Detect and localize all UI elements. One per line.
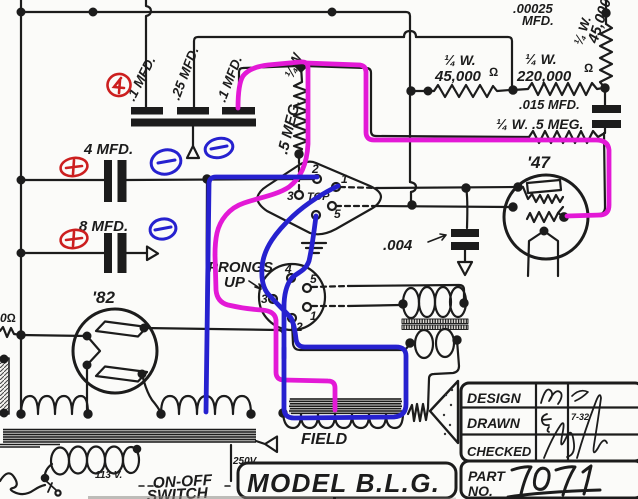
table row line 2 — [461, 433, 638, 435]
magenta trace from .5MEG top to 47 grid — [306, 63, 609, 216]
svg-text:7-32: 7-32 — [571, 412, 589, 422]
svg-text:UP: UP — [224, 274, 246, 291]
82 anode plate top — [96, 322, 147, 337]
tube 47 plate box — [527, 180, 561, 193]
wire dashed from S2 pin1 — [312, 305, 348, 307]
wire 250V lead — [230, 445, 232, 481]
svg-text:0Ω: 0Ω — [0, 311, 16, 325]
T1 core laminations — [402, 319, 468, 324]
wire dashed from .5MEG bottom to socket pin3 — [298, 158, 300, 189]
filter choke L1 loops — [21, 396, 88, 415]
node choke2 right — [247, 410, 254, 417]
choke core bar hatched — [3, 429, 256, 443]
node 220k right / vertical resistor bottom — [601, 84, 608, 91]
terminal arrow 8MFD — [147, 247, 158, 261]
capacitor bank common bottom plate — [131, 119, 256, 127]
svg-text:113 V.: 113 V. — [95, 470, 122, 481]
wire 4MFD right — [127, 179, 315, 180]
wire cap bank ground lead — [192, 126, 194, 146]
socket S2 pin 3 — [269, 295, 277, 303]
output transformer T1 primary loops — [403, 288, 419, 318]
svg-text:'82: '82 — [92, 288, 115, 307]
wire 47 right pin to grid zigzag — [558, 213, 564, 217]
socket S2 pin 1 — [303, 303, 311, 311]
terminal arrow at core bar right — [256, 437, 277, 453]
capacitor .004 plates — [451, 229, 479, 237]
wire .004 lower lead — [464, 250, 466, 262]
wire dashed plate line from pin1 — [340, 187, 378, 188]
line cord — [0, 473, 45, 494]
red circled 4 annotation — [106, 72, 132, 98]
socket S1 pin 3 — [295, 191, 303, 199]
wire grid line to 47 grid — [372, 206, 513, 207]
tube V2 '82 envelope — [73, 309, 157, 393]
resistor R 45,000 quarter-W — [411, 85, 510, 97]
node 47 cathode top — [541, 228, 548, 235]
node left block top — [1, 356, 8, 363]
wire hop of second bus over B+ vertical — [404, 31, 416, 37]
node left block bottom — [1, 410, 8, 417]
node 47 right pin — [560, 213, 568, 221]
ground arrow under cap bank — [187, 146, 199, 158]
wire right column down to 47 grid pin — [566, 133, 605, 216]
capacitor C3 .1 MFD top plate — [222, 107, 255, 115]
wire top bus — [21, 12, 410, 182]
node T1 primary left — [399, 300, 406, 307]
svg-text:¼ W.: ¼ W. — [525, 51, 557, 67]
wire S2 pin1 to output transformer primary left — [348, 305, 400, 306]
signature design — [541, 390, 562, 405]
wire capacitor C1 lead with hop over top bus — [146, 0, 151, 107]
node T1 primary right — [460, 299, 467, 306]
blue circled minus near cap bank right — [203, 136, 234, 160]
ground arrow under .004 — [458, 262, 472, 275]
resistor .5 MEG quarter-W horizontal — [529, 131, 603, 143]
part box — [461, 461, 638, 498]
82 filament V — [87, 336, 100, 365]
blue trace socket S1 pin2 arc to S2 pin3 then pin2 then field loop — [262, 186, 406, 418]
wire .015 bottom to plate-wire corner — [604, 128, 606, 133]
wire capacitor C3 lead — [239, 66, 297, 107]
wire dashed grid line from pin5 — [336, 205, 372, 207]
svg-text:PART: PART — [468, 468, 506, 484]
svg-text:3: 3 — [287, 189, 294, 203]
node 82 plate bottom pin — [139, 371, 146, 378]
wire 4MFD left — [21, 179, 104, 181]
field coil winding hatch — [289, 398, 402, 414]
blue circled minus at 8MFD — [148, 217, 177, 241]
node 82 lower-left pin — [84, 362, 91, 369]
socket S1 pin 1 — [332, 183, 340, 191]
svg-text:4: 4 — [284, 262, 292, 276]
wire capacitor C2 lead to second bus — [194, 37, 404, 107]
node 45k left lead — [425, 88, 432, 95]
node resistor top junction — [295, 60, 306, 71]
table column line 1 — [535, 383, 537, 461]
node 47 plate pin — [514, 183, 521, 190]
node choke1 left — [17, 410, 24, 417]
wire B+ vertical lower — [411, 200, 415, 205]
signature drawn — [542, 414, 551, 432]
node field coil left — [279, 409, 286, 416]
wire T1 secondary right to voice coil — [428, 340, 459, 408]
node top bus x93 — [90, 9, 97, 16]
svg-text:CHECKED: CHECKED — [467, 444, 532, 459]
socket S1 pin 5 — [328, 202, 336, 210]
capacitor .015 MFD plates — [592, 105, 621, 113]
node 82 left pin — [84, 333, 91, 340]
wire dashed from S2 pin5 — [312, 286, 348, 287]
node primary left — [42, 475, 48, 481]
capacitor C4 4 MFD plates — [104, 160, 112, 202]
node 47 grid pin — [509, 203, 516, 210]
node 82 plate top pin — [141, 325, 148, 332]
node resistor .5MEG bottom — [295, 150, 302, 157]
node plate line at .004 — [462, 184, 469, 191]
82 anode plate bottom — [96, 367, 147, 382]
node 45k/220k junction — [509, 86, 516, 93]
svg-text:4 MFD.: 4 MFD. — [83, 141, 133, 158]
node choke1 right — [84, 410, 91, 417]
blue trace socket S1 pin4 arc to S2 pin4 and down — [284, 216, 316, 358]
svg-text:NO.: NO. — [468, 483, 493, 499]
wire 220k junction down to .015 cap — [604, 88, 606, 105]
voice coil spring — [408, 404, 428, 421]
T1 secondary loops — [415, 330, 433, 358]
wire top bus lower segment — [410, 192, 412, 200]
node grid line at B+ vertical — [408, 201, 415, 208]
resistor stub at left edge — [0, 327, 21, 337]
socket S2 pin 5 — [303, 284, 311, 292]
node rail at 82 line — [17, 331, 24, 338]
node primary right — [134, 446, 140, 452]
tube 47 filament legs — [528, 231, 558, 276]
svg-text:.004: .004 — [383, 237, 413, 254]
node 4MFD junction — [203, 175, 210, 182]
socket S2 pin 2 — [288, 314, 296, 322]
svg-text:MFD.: MFD. — [522, 13, 554, 28]
tube 47 grid zigzag upper — [523, 187, 563, 203]
blue circled minus near cap bank left — [149, 147, 184, 178]
wire 82 lower-left pin down to choke1 — [86, 365, 88, 414]
node choke2 left — [157, 410, 164, 417]
node B+ vertical at 45k — [407, 87, 414, 94]
wire right-edge vertical top — [605, 0, 607, 24]
wire 8MFD left — [21, 252, 104, 254]
wire hop of B+ vertical over plate line — [410, 182, 416, 192]
left edge resistor block hatched — [0, 358, 9, 414]
red circled plus at 8MFD — [59, 228, 88, 250]
capacitor C2 .25 MFD top plate — [177, 107, 209, 115]
svg-text:Ω: Ω — [489, 65, 498, 79]
wire primary left lead to switch — [45, 464, 52, 478]
svg-text:1: 1 — [310, 309, 317, 323]
speaker cone dots — [443, 389, 453, 435]
wire S2 pin2 down and right to secondary left (under blue) — [292, 322, 410, 350]
table column line 2 — [567, 383, 569, 461]
red circled plus at 4MFD — [59, 156, 88, 178]
dashed secondary line — [139, 485, 232, 487]
wire vertical from 4MFD junction down to choke tap — [206, 179, 207, 398]
title table outline — [461, 383, 638, 461]
wire left rail to 82 filament — [21, 335, 87, 336]
resistor .5 MEG quarter-W vertical — [294, 66, 308, 154]
resistor R 220,000 quarter-W — [513, 83, 603, 95]
node T1 secondary left — [406, 339, 413, 346]
tube 47 grid zigzag lower — [527, 207, 563, 222]
table row line 1 — [461, 406, 638, 408]
power transformer primary loops — [51, 448, 69, 475]
speaker cone — [430, 381, 458, 443]
node 8MFD left rail — [18, 250, 25, 257]
signature checked — [544, 423, 574, 458]
wire 82 top plate to field coil left — [144, 328, 283, 413]
wire S2 pin5 to output transformer primary right — [348, 285, 464, 301]
svg-text:'47: '47 — [527, 153, 551, 172]
tube U1 '47 envelope — [504, 175, 588, 259]
svg-text:1: 1 — [341, 172, 348, 186]
svg-text:DESIGN: DESIGN — [467, 390, 522, 406]
svg-text:¼ W.: ¼ W. — [444, 52, 476, 68]
switch SW1 — [45, 480, 56, 492]
blue trace socket S1 pin2 to junction and down to choke tap — [206, 177, 317, 412]
wire from resistor top to right-angle feed — [305, 66, 529, 137]
scan artifact bottom edge — [88, 496, 333, 499]
node top bus x332 — [329, 9, 336, 16]
svg-text:2: 2 — [311, 162, 319, 176]
tube socket S2 round (prongs up) — [259, 264, 325, 330]
node right-edge vertical — [602, 9, 609, 16]
wire .004 cap lead down — [466, 188, 467, 228]
wire 82 bottom plate to choke2 — [142, 374, 161, 413]
resistor 45,000 quarter-W vertical right edge — [600, 24, 612, 88]
socket S1 pin 2 — [313, 175, 321, 183]
wire plate line to 47 plate — [378, 187, 518, 188]
field coil loops — [283, 413, 403, 428]
svg-text:DRAWN: DRAWN — [467, 415, 521, 431]
tube socket S1 outline (top view) — [257, 162, 381, 235]
filter choke L2 loops — [161, 396, 251, 414]
svg-text:MODEL B.L.G.: MODEL B.L.G. — [247, 468, 439, 498]
capacitor C1 .1 MFD top plate — [131, 107, 163, 115]
node top-left — [18, 9, 25, 16]
node 4MFD left rail — [18, 177, 25, 184]
socket S2 pin 4 — [287, 274, 295, 282]
node T1 secondary right — [453, 336, 460, 343]
capacitor C5 8 MFD plates — [104, 233, 112, 273]
wire 8MFD right with terminal arrow — [127, 252, 148, 254]
wire left rail — [20, 0, 22, 415]
svg-text:¼ W. .5 MEG.: ¼ W. .5 MEG. — [496, 116, 583, 132]
model box — [238, 463, 456, 498]
svg-text:5: 5 — [310, 272, 317, 286]
magenta trace from C3 through .5MEG down to socket and field coil — [215, 62, 335, 410]
svg-text:.015 MFD.: .015 MFD. — [519, 97, 580, 112]
svg-text:FIELD: FIELD — [301, 431, 348, 448]
svg-text:Ω: Ω — [584, 61, 593, 75]
ground under socket S1 — [302, 243, 326, 253]
part number 7071 handwritten — [508, 466, 600, 497]
wire second bus right segment — [416, 37, 512, 87]
svg-text:45,000: 45,000 — [434, 68, 482, 85]
socket S1 pin 4 — [312, 211, 320, 219]
svg-text:5: 5 — [334, 207, 341, 221]
svg-text:220,000: 220,000 — [516, 68, 572, 85]
wire socket S1 pin4 to ground — [313, 219, 316, 241]
